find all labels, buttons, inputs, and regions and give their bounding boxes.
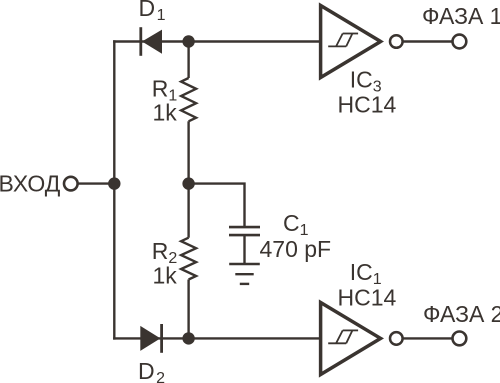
- wire node to capacitor C1: [189, 184, 245, 226]
- diode D1 cathode bar: [139, 27, 142, 56]
- node middle junction dot: [182, 177, 194, 189]
- node bottom junction dot: [182, 332, 194, 344]
- svg-text:HC14: HC14: [338, 91, 397, 117]
- ground long line: [229, 263, 260, 265]
- node input junction dot: [108, 177, 120, 189]
- capacitor C1 bottom plate: [229, 234, 260, 237]
- wire bottom horizontal to inverter IC1 input: [113, 337, 320, 339]
- node top junction dot: [182, 35, 194, 47]
- wire R2 bottom lead: [187, 280, 189, 339]
- resistor R1 zigzag: [181, 78, 196, 121]
- IC1 output inversion bubble: [390, 332, 403, 345]
- wire capacitor C1 to ground: [243, 236, 245, 263]
- wire IC1 output to terminal: [403, 337, 453, 339]
- ground middle line: [235, 273, 253, 275]
- svg-text:ФАЗА 1: ФАЗА 1: [422, 3, 500, 29]
- op-amp inverter IC1 triangle: [321, 303, 381, 375]
- output terminal phase 2 circle: [453, 332, 467, 346]
- diode D2 cathode bar: [160, 324, 163, 353]
- input terminal circle: [64, 177, 78, 191]
- wire IC3 output to terminal: [403, 40, 453, 42]
- svg-text:D1: D1: [139, 0, 166, 24]
- wire input horizontal: [78, 182, 115, 184]
- svg-text:1k: 1k: [153, 263, 178, 289]
- output terminal phase 1 circle: [453, 35, 467, 49]
- IC3 output inversion bubble: [390, 35, 403, 48]
- diode D1 triangle (cathode left): [142, 30, 162, 54]
- IC1 hysteresis symbol: [328, 330, 358, 343]
- op-amp inverter IC3 triangle: [321, 6, 381, 78]
- IC3 hysteresis symbol: [328, 34, 358, 47]
- svg-text:ФАЗА 2: ФАЗА 2: [423, 301, 500, 327]
- svg-text:D2: D2: [138, 358, 165, 383]
- svg-text:ВХОД: ВХОД: [0, 171, 61, 197]
- svg-text:C1: C1: [283, 210, 309, 239]
- resistor R2 zigzag: [181, 238, 196, 280]
- wire top horizontal to inverter IC3 input: [113, 40, 320, 42]
- wire R1 top lead: [187, 42, 189, 79]
- wire left vertical bus: [113, 40, 115, 339]
- diode D2 triangle (anode left): [140, 326, 160, 351]
- svg-text:HC14: HC14: [338, 284, 397, 310]
- capacitor C1 top plate: [229, 226, 260, 229]
- wire R1 bottom lead: [187, 121, 189, 183]
- ground short line: [240, 283, 249, 285]
- svg-text:470 pF: 470 pF: [260, 236, 332, 262]
- svg-text:1k: 1k: [153, 99, 178, 125]
- wire R2 top lead: [187, 184, 189, 238]
